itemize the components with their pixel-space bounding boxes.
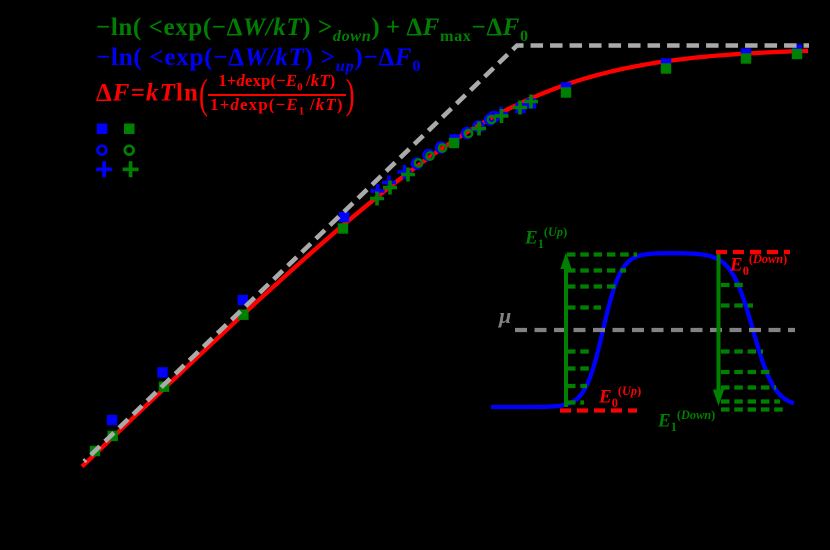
green plus markers: [370, 95, 538, 206]
green open circles: [415, 116, 495, 167]
legend blue square: [97, 124, 108, 135]
legend blue plus: [96, 161, 112, 177]
inset label mu gray: [499, 305, 511, 327]
green up arrow E1(Up): [564, 268, 568, 407]
legend formula line 1 (green, down estimator): [96, 15, 529, 44]
legend green plus: [123, 161, 139, 177]
legend formula line 2 (blue, up estimator): [96, 45, 421, 74]
blue plus markers: [371, 107, 509, 199]
green dashed energy levels (up side): [567, 255, 637, 403]
inset label E1(Down) green: [658, 409, 715, 433]
legend green square: [124, 124, 135, 135]
inset label E0(Down) red: [730, 253, 787, 277]
green dashed energy levels (down side): [721, 285, 787, 410]
green squares (down estimator data): [90, 49, 802, 456]
green down arrow E1(Down): [717, 251, 721, 390]
legend formula line 3 (red, theory): [96, 73, 355, 116]
blue squares (up estimator data): [107, 44, 802, 425]
gray dashed asymptotic bound: [84, 46, 809, 462]
red theory curve: [82, 51, 808, 467]
inset label E0(Up) red: [599, 385, 641, 409]
legend green circle: [125, 146, 134, 155]
inset blue barrier curve: [491, 253, 794, 407]
red dashed E0(Up) level: [560, 408, 637, 412]
blue open circles: [412, 112, 498, 168]
inset gray dashed chemical potential line: [515, 328, 795, 332]
red dashed E0(Down) level: [716, 250, 790, 254]
inset label E1(Up) green: [525, 226, 567, 250]
legend blue circle: [98, 146, 107, 155]
